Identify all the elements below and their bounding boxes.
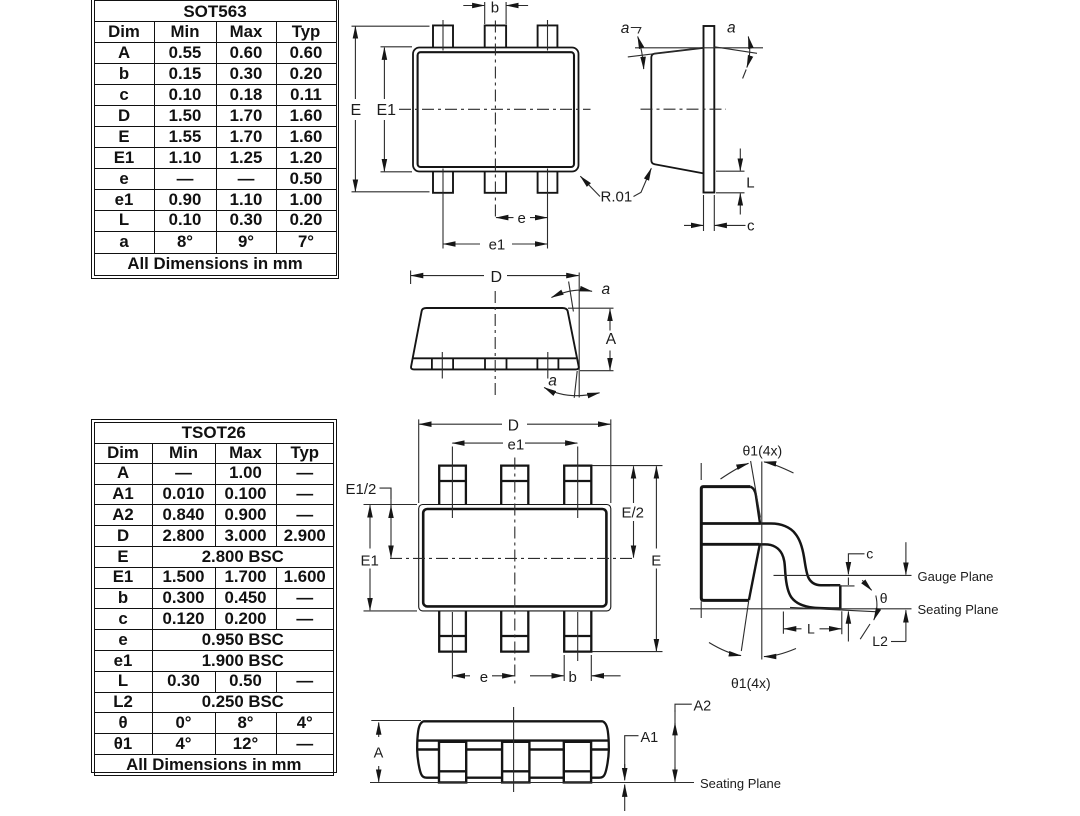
E1/2 dimension line [390,488,392,556]
c extension lines [704,195,715,231]
foot top reference tick [830,585,855,587]
svg-text:c: c [866,546,873,562]
svg-text:a: a [727,20,736,37]
dimension e line [453,675,470,677]
svg-text:Gauge Plane: Gauge Plane [918,569,994,584]
lead 3 center tick [547,352,549,379]
E1/2 bracket [380,488,392,499]
gauge plane line [774,574,912,576]
shoulder line [417,739,608,741]
TSOT26 dimension table [91,419,337,773]
svg-text:Seating Plane: Seating Plane [700,776,781,791]
theta1 top arc right [764,462,794,473]
A1 up arrow below seating [624,785,626,811]
pin 2 (top middle) [485,25,506,47]
dimension E line [655,466,657,548]
svg-text:E1: E1 [377,102,397,119]
L extension bottom [716,192,745,194]
pin 6 (top left) [439,466,466,505]
dimension e line [496,217,513,219]
L2 down arrow [905,542,907,574]
theta1 top arc left [721,463,749,479]
svg-text:L: L [807,621,815,637]
svg-text:E1/2: E1/2 [346,481,377,498]
A1 down arrow [624,764,626,780]
a right arc [747,37,750,68]
dimension L line [784,628,802,630]
package body inner outline [418,52,574,167]
lead slot upper line [701,522,760,525]
e extension below pin 1 [451,612,453,679]
pin 2 (bottom middle) [501,611,528,652]
top-right angle reference line [714,47,757,54]
svg-text:e1: e1 [508,436,525,453]
svg-text:e: e [518,210,526,227]
A extension top [371,720,421,722]
A1 bracket [625,736,639,768]
svg-text:A: A [606,331,617,348]
D extension left [410,271,412,285]
L extension lines [783,611,841,634]
dimension E1 line [383,48,385,99]
theta leader lower [860,624,870,639]
svg-text:b: b [569,669,577,686]
E1 extension lines [364,505,418,611]
pin4 center tick / e,e1 extension [547,169,549,249]
body lower contour line [417,748,609,750]
svg-text:θ1(4x): θ1(4x) [731,675,771,691]
body inner outline [423,509,606,606]
e1 extension through pin 4 [577,447,579,519]
svg-text:a: a [602,281,611,298]
theta1 slant reference upper [751,461,761,518]
svg-text:b: b [491,0,499,17]
pin 6 (bottom left) [433,172,453,193]
dimension E line [354,26,356,99]
lead slot lower line [701,543,759,546]
theta1 slant reference lower [741,601,748,651]
dimension b line right [506,5,528,7]
svg-text:D: D [508,418,519,435]
svg-text:e1: e1 [489,237,506,254]
dimension L lower arrow [739,193,741,214]
svg-text:a: a [621,20,630,37]
pin 4 (bottom right) [538,172,558,193]
dimension D line [411,275,484,277]
horizontal centerline [399,108,591,110]
L2 label connector [891,641,906,643]
svg-text:E: E [651,553,661,570]
svg-text:E: E [351,102,362,119]
E extension bottom [352,191,430,193]
pin 5 (top middle) [501,466,528,505]
dimension b line left [463,5,484,7]
dimension c right line [715,224,746,226]
vertical centerline [494,291,496,399]
svg-text:R.01: R.01 [601,189,633,206]
a left arc [638,37,644,70]
pin1 top center tick [442,20,444,51]
pin 3 center line [577,612,579,661]
E extension bottom [593,651,663,653]
svg-text:Seating Plane: Seating Plane [918,602,999,617]
lead strip line [413,357,576,359]
seating plane line [690,608,912,610]
dimension A line [378,723,380,738]
body outer outline [419,505,611,611]
b extension lines [564,655,591,681]
vertical centerline [514,458,516,684]
svg-text:c: c [747,218,755,235]
D extension right / angle reference [578,273,580,398]
theta1 bottom arc right [764,649,796,657]
package body outer outline [413,48,579,172]
pin 3 (bottom right) [564,611,591,652]
bottom a arc [544,388,599,396]
lead lower outline [760,544,841,608]
body right edge lower [749,544,760,600]
dimension E/2 line [633,466,635,503]
a right arc tail [743,70,747,79]
vertical centerline [513,707,515,792]
lead 1 [439,742,466,783]
body outline [411,308,579,369]
standoff up arrow [847,612,849,642]
top-left angle reference line [628,48,704,57]
vertical centerline [494,21,496,221]
body edge extension bottom [700,602,702,619]
svg-text:E1: E1 [361,553,379,570]
dimension E1 line [369,505,371,548]
A extension bottom [580,370,614,372]
c down arrow [847,563,849,574]
seating plane line [370,782,694,784]
c lower reference line [847,578,849,586]
pin6 center tick / e1 extension [442,169,444,249]
theta leader upper [862,580,871,590]
E1 extension bottom [381,171,413,173]
horizontal reference line [635,47,763,49]
R.01 leader to body corner [580,176,600,196]
lead foot end edge [839,585,842,608]
theta arc [874,596,877,621]
theta1 bottom arc left [709,643,741,656]
c bracket [848,554,864,565]
R.01 leader to side view corner [634,168,652,196]
svg-text:D: D [491,269,503,286]
body right edge upper [750,487,760,524]
pin 1 (top left) [433,25,453,47]
dimension e1 line [443,243,480,245]
A2 dimension line [674,710,676,780]
svg-text:L2: L2 [872,633,888,649]
svg-text:A1: A1 [641,730,659,746]
body side profile [651,48,703,173]
A2 bracket [675,704,692,712]
svg-text:a: a [548,373,557,390]
svg-text:L: L [746,175,754,192]
pin 3 (top right) [538,25,558,47]
dimension e1 line [452,442,503,444]
E extension top [352,25,430,27]
SOT563 dimension table [91,0,339,279]
bottom angle reference line [574,371,577,398]
L extension top [716,170,745,172]
svg-text:e: e [480,669,488,686]
D extension lines [419,419,611,503]
pin 5 (bottom middle) [485,172,506,193]
svg-text:A: A [374,746,384,762]
E1 extension top [381,46,413,48]
E extension top [593,465,663,467]
pin 4 (top right) [564,466,591,505]
L2 up arrow with tail [905,610,907,641]
dimension D line [419,423,502,425]
lead edge ticks [432,358,559,369]
dimension A line [609,309,611,331]
dimension b line [530,675,564,677]
lead 2 [502,742,529,783]
b extension lines [485,2,506,24]
e1 extension through pin 6 [451,447,453,519]
a left bracket [631,28,641,34]
svg-text:A2: A2 [694,699,712,715]
pin3 top center tick [547,20,549,51]
body outline [417,721,609,777]
theta1 vertical reference [761,462,763,660]
centerline [641,108,727,110]
body profile outline [701,487,750,601]
dimension L upper arrow [739,149,741,171]
lead cross-section bar [704,26,715,193]
theta foot reference line [790,607,878,611]
top angle reference line [569,282,574,312]
dimension c left arrow [684,224,703,226]
svg-text:E/2: E/2 [622,505,645,522]
body edge extension top [700,463,702,480]
A extension top [568,307,614,309]
svg-text:θ: θ [880,590,888,606]
svg-text:θ1(4x): θ1(4x) [743,442,783,458]
pin 1 (bottom left) [439,611,466,652]
lead upper outline [761,524,841,586]
top a arc [552,290,593,297]
lead 3 [564,742,591,783]
lead 1 center tick [441,352,443,379]
horizontal centerline [390,557,634,559]
